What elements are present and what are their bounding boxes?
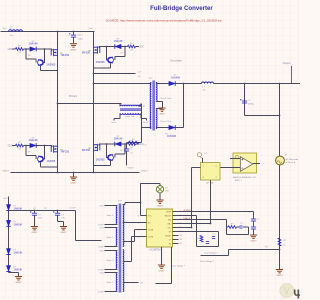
svg-text:COM?: COM? <box>98 269 103 271</box>
wire <box>12 145 16 147</box>
svg-text:1u: 1u <box>138 76 140 78</box>
svg-text:B?: B? <box>141 283 143 285</box>
svg-text:IRF250: IRF250 <box>82 52 91 55</box>
wire <box>159 193 161 200</box>
transistor 2N2905 <box>38 60 44 66</box>
mosfet IRF250 <box>94 144 100 151</box>
svg-text:Rsec1: 10m: Rsec1: 10m <box>161 98 172 100</box>
svg-text:GD2: GD2 <box>100 250 104 252</box>
wire <box>115 56 125 58</box>
wire <box>63 222 65 227</box>
wire <box>156 283 172 285</box>
wire down to bus <box>191 168 193 228</box>
wire <box>114 154 116 158</box>
wire <box>136 143 140 145</box>
svg-text:GND?: GND? <box>157 206 164 208</box>
svg-text:2N2905: 2N2905 <box>47 160 56 163</box>
resistor R gate <box>16 48 24 51</box>
wire <box>105 272 118 274</box>
svg-text:GND?: GND? <box>2 171 9 173</box>
resistor R gate <box>16 144 24 147</box>
wire <box>226 227 228 235</box>
pin OUTB <box>141 236 147 238</box>
wire <box>227 234 249 236</box>
pin EA- <box>173 219 179 221</box>
diode 1N4148 (gate) <box>30 143 36 148</box>
svg-text:GND?: GND? <box>141 171 148 173</box>
wire CS+ <box>179 227 192 229</box>
wire: opamp in+ <box>230 158 240 160</box>
wire <box>36 48 44 50</box>
svg-text:GND?: GND? <box>32 232 39 234</box>
svg-text:TEST: 1: TEST: 1 <box>234 180 242 182</box>
wire <box>123 261 132 263</box>
diode D6 1N4148 <box>6 205 10 211</box>
ground (aux cap1) <box>31 227 38 230</box>
wire <box>159 184 161 186</box>
svg-text:1N4148: 1N4148 <box>14 269 23 272</box>
wire <box>107 46 115 48</box>
wire <box>24 48 30 50</box>
svg-text:1: 1 <box>138 215 139 217</box>
wire <box>105 250 118 252</box>
core line <box>152 81 154 131</box>
secondary winding top <box>156 83 157 102</box>
svg-text:Primary: Primary <box>69 95 78 98</box>
ground (aux) <box>15 277 22 280</box>
svg-text:1m: 1m <box>203 90 206 92</box>
pin RT <box>173 243 179 245</box>
wire <box>161 247 163 265</box>
pin CT <box>173 239 179 241</box>
ground (bridge return) <box>70 177 77 180</box>
wire: output port stub <box>291 66 293 84</box>
capacitor Cdiv <box>212 237 215 239</box>
wire: bridge return rail <box>11 172 140 174</box>
capacitor Cdiv2 <box>206 242 209 244</box>
svg-text:GND?: GND? <box>16 282 23 284</box>
svg-text:1N4148: 1N4148 <box>14 252 23 255</box>
watermark logo <box>280 284 294 298</box>
wire <box>201 255 229 257</box>
svg-text:Ratio: 1: Ratio: 1 <box>107 236 114 239</box>
svg-text:FBACK?: FBACK? <box>184 217 193 220</box>
svg-text:Ψ: Ψ <box>293 288 300 300</box>
wire CS lead left <box>119 113 121 118</box>
wire SS <box>179 231 197 233</box>
wire <box>26 155 36 157</box>
winding GD2 <box>116 251 117 270</box>
wire <box>58 221 64 223</box>
wire <box>35 59 37 63</box>
svg-text:OUTA: OUTA <box>148 228 154 231</box>
wire <box>119 104 121 107</box>
wire <box>105 269 118 271</box>
wire: to pin VCC <box>140 184 142 216</box>
wire <box>162 102 164 109</box>
wire <box>140 104 142 107</box>
wire <box>124 47 126 57</box>
wire <box>34 211 36 213</box>
svg-text:1N4148: 1N4148 <box>114 40 123 43</box>
pin EA+ <box>173 223 179 225</box>
mosfet IRF250 <box>94 46 100 53</box>
svg-text:EA-: EA- <box>168 218 172 221</box>
wire <box>248 227 250 235</box>
wire to gate <box>45 48 53 50</box>
svg-text:GND?: GND? <box>159 271 166 273</box>
inductor Lin <box>9 30 23 32</box>
wire: output rail <box>214 83 301 85</box>
wire <box>121 46 127 48</box>
svg-text:COM?: COM? <box>98 291 103 293</box>
wire EA- <box>179 219 227 221</box>
svg-text:ISen1: ISen1 <box>112 122 117 124</box>
wire <box>228 250 230 256</box>
svg-text:SOURCE; http;//www.heavner.umk: SOURCE; http;//www.heavner.umkc.edu/reso… <box>105 19 221 23</box>
svg-text:VREF: VREF <box>166 211 172 213</box>
wire to primary bottom <box>142 127 152 129</box>
mosfet IRF250 <box>51 49 57 56</box>
wire <box>226 220 228 228</box>
wire <box>123 282 139 284</box>
wire EA+ <box>179 223 211 225</box>
wire: sensor in <box>192 167 201 169</box>
wire <box>124 203 126 205</box>
wire: sensor out down <box>210 180 212 224</box>
svg-text:GND?: GND? <box>159 114 166 116</box>
wire <box>110 161 112 166</box>
ground (center tap) <box>158 108 165 111</box>
wire <box>76 240 102 242</box>
wire <box>132 236 141 238</box>
capacitor Cdc <box>71 35 76 37</box>
wire: +DC rail <box>1 31 95 33</box>
svg-text:GD3: GD3 <box>139 47 144 49</box>
wire <box>196 216 198 232</box>
pin EAOUT <box>173 215 179 217</box>
ground (dc bus) <box>70 44 77 47</box>
diode 1N4148 (gate) <box>30 47 36 52</box>
capacitor Cout <box>242 101 247 103</box>
wire: opamp in- <box>220 167 241 169</box>
wire <box>141 118 147 120</box>
transistor 2N2905 <box>108 155 114 161</box>
wire <box>123 222 141 224</box>
svg-text:Rsec2: 10m: Rsec2: 10m <box>161 121 172 123</box>
svg-text:Vout Voltage ?: Vout Voltage ? <box>205 251 219 254</box>
svg-text:13: 13 <box>180 239 182 241</box>
wire <box>156 83 169 85</box>
svg-text:VCC: VCC <box>148 215 153 217</box>
wire <box>44 146 46 160</box>
wire <box>156 108 163 110</box>
core line <box>120 204 122 293</box>
wire to gate <box>99 46 107 48</box>
svg-text:GND?: GND? <box>251 241 258 243</box>
capacitor Cr <box>124 149 129 151</box>
mosfet IRF250 <box>51 145 57 152</box>
wire <box>73 37 75 43</box>
wire <box>9 272 19 274</box>
svg-text:GD4: GD4 <box>100 272 104 274</box>
svg-text:GND?: GND? <box>61 232 68 234</box>
ground (IC) <box>158 265 165 268</box>
wire gate stub <box>98 144 100 146</box>
diode D2 <box>169 125 175 130</box>
wire <box>253 221 255 227</box>
wire <box>114 118 120 120</box>
diode 1N4148 (gate) <box>115 142 121 147</box>
wire <box>105 205 118 207</box>
wire <box>57 211 59 213</box>
svg-text:GD1: GD1 <box>100 205 104 207</box>
wire <box>146 119 148 121</box>
svg-text:A-TRIG?: A-TRIG? <box>184 209 193 212</box>
svg-text:COM?: COM? <box>98 224 103 226</box>
wire <box>156 101 163 103</box>
wire <box>141 183 161 185</box>
wire <box>26 58 36 60</box>
wire <box>131 237 133 262</box>
wire <box>197 231 219 233</box>
svg-text:Ratio: 10k: Ratio: 10k <box>125 115 134 118</box>
wire: left leg to CS transformer <box>58 103 122 105</box>
wire <box>279 165 281 250</box>
svg-text:Cdc?: Cdc? <box>77 35 83 37</box>
wire <box>110 63 112 68</box>
wire: left leg rail x57 <box>57 32 59 173</box>
wire <box>40 66 42 71</box>
svg-text:IRF250: IRF250 <box>61 151 70 154</box>
resistor Rcomp <box>228 226 237 229</box>
wire <box>113 119 115 121</box>
wire <box>123 204 125 206</box>
current probe I1 <box>276 156 285 165</box>
wire <box>41 166 58 168</box>
op-amp U3 (yellow box) <box>233 153 257 173</box>
PWM controller U1 UC3875 (yellow box) <box>147 209 173 247</box>
svg-text:1N4148: 1N4148 <box>114 138 123 141</box>
CS secondary winding <box>120 113 141 114</box>
wire <box>94 67 111 69</box>
wire <box>105 224 118 226</box>
wire <box>25 49 27 59</box>
wire <box>12 48 16 50</box>
ground (aux cap2) <box>60 227 67 230</box>
diode D1 <box>169 81 175 86</box>
svg-text:DELAY: DELAY <box>165 234 172 237</box>
svg-text:1N5408: 1N5408 <box>167 135 176 138</box>
wire <box>245 115 280 117</box>
wire to gate <box>99 143 107 145</box>
wire <box>24 145 30 147</box>
svg-text:IRF250: IRF250 <box>82 149 91 152</box>
wire <box>94 165 111 167</box>
wire <box>175 127 183 129</box>
winding GD4 <box>116 273 117 292</box>
svg-text:GD3: GD3 <box>100 227 104 229</box>
wire <box>34 215 36 226</box>
wire <box>105 227 118 229</box>
svg-text:OUTB: OUTB <box>148 236 154 238</box>
wire <box>75 211 77 241</box>
resistor R gate <box>128 143 136 146</box>
winding drive B <box>123 250 124 292</box>
wire <box>175 83 201 85</box>
pin NC <box>141 222 147 224</box>
resistor Rr <box>129 141 139 144</box>
wire <box>105 246 118 248</box>
wire <box>123 241 135 243</box>
svg-text:GND?: GND? <box>277 275 284 277</box>
svg-text:LED: LED <box>165 191 169 193</box>
svg-text:Secondary: Secondary <box>170 59 182 62</box>
wire <box>18 273 20 277</box>
capacitor Cvref2 <box>251 227 256 229</box>
wire <box>106 47 108 61</box>
svg-text:2N2905: 2N2905 <box>96 159 105 162</box>
svg-text:ISen2: ISen2 <box>143 122 148 124</box>
svg-text:Vout Voltage ?: Vout Voltage ? <box>172 265 186 268</box>
svg-text:Ratio: 1: Ratio: 1 <box>107 214 114 217</box>
wire: right leg rail x93 <box>93 32 95 173</box>
svg-text:IRF250: IRF250 <box>61 54 70 57</box>
svg-text:4700u: 4700u <box>248 104 255 106</box>
capacitor Cvref <box>251 219 256 221</box>
svg-text:1N5408: 1N5408 <box>171 76 180 79</box>
wire: IC pin down <box>171 247 173 284</box>
wire <box>136 46 140 48</box>
svg-text:100u: 100u <box>78 39 84 41</box>
svg-text:14: 14 <box>180 235 182 237</box>
svg-text:1n: 1n <box>130 152 132 154</box>
transistor 2N2905 <box>38 156 44 162</box>
CS primary winding <box>120 105 141 106</box>
wire <box>218 232 220 247</box>
svg-text:of Phase A: of Phase A <box>286 161 296 164</box>
wire: Vout sense <box>229 249 280 251</box>
wire CS lead right <box>140 113 142 118</box>
wire <box>106 144 108 158</box>
wire <box>41 70 58 72</box>
diode D8 1N4148 <box>6 249 10 255</box>
wire <box>197 246 219 248</box>
wire <box>124 144 126 154</box>
svg-text:EAOUT: EAOUT <box>165 214 172 217</box>
ground (vref) <box>250 235 257 238</box>
wire: primary bottom drop <box>141 104 143 143</box>
resistor R gate <box>128 45 136 48</box>
secondary winding bottom <box>156 109 157 129</box>
core line <box>153 81 155 131</box>
pin SS <box>173 231 179 233</box>
diode 1N4148 (gate) <box>115 44 121 49</box>
wire <box>202 158 204 163</box>
wire <box>44 49 46 63</box>
wire gate stub <box>51 146 53 148</box>
svg-text:2N2905: 2N2905 <box>47 64 56 67</box>
pin DELAY <box>173 235 179 237</box>
wire VREF <box>179 211 254 213</box>
wire <box>35 156 37 160</box>
wire <box>107 143 115 145</box>
svg-text:2N2905: 2N2905 <box>96 61 105 64</box>
wire <box>57 215 59 221</box>
wire <box>134 230 136 242</box>
winding drive A <box>123 205 124 247</box>
wire <box>36 145 44 147</box>
capacitor Ccomp <box>239 226 242 228</box>
wire <box>156 127 169 129</box>
svg-text:COM?: COM? <box>98 246 103 248</box>
ground (load) <box>276 270 283 273</box>
wire <box>253 212 255 219</box>
svg-text:UC3875N: UC3875N <box>150 249 161 252</box>
diode D7 1N4148 <box>6 220 10 226</box>
pin VREF <box>173 211 179 213</box>
svg-text:Full-Bridge Converter: Full-Bridge Converter <box>150 5 213 12</box>
svg-text:Output: Output <box>283 61 291 65</box>
resistor Rload sense <box>278 238 281 246</box>
wire <box>196 232 198 247</box>
svg-text:Ratio: 1: Ratio: 1 <box>107 281 114 284</box>
ground (LED) <box>156 200 163 203</box>
wire <box>114 57 116 61</box>
svg-text:C?: C? <box>212 234 214 236</box>
wire <box>253 229 255 235</box>
svg-text:1N4148: 1N4148 <box>29 139 38 142</box>
pin CS+ <box>173 227 179 229</box>
LED D5 <box>156 186 163 193</box>
svg-text:D.OUT: D.OUT <box>69 208 76 210</box>
svg-text:1N4148: 1N4148 <box>14 223 23 226</box>
svg-text:Vout Voltage ?: Vout Voltage ? <box>200 260 215 263</box>
wire: right leg to primary top <box>94 83 152 85</box>
wire: resonant tap y73.5 <box>94 73 136 75</box>
svg-text:1N4148: 1N4148 <box>29 43 38 46</box>
pin OUTA <box>141 229 147 231</box>
wire <box>125 202 141 204</box>
wire EAOUT <box>179 215 197 217</box>
wire: aux vcc rail <box>9 210 76 212</box>
wire <box>40 162 42 167</box>
wire <box>126 151 128 166</box>
svg-text:R?: R? <box>196 238 198 240</box>
capacitor aux <box>32 213 37 215</box>
wire to gate <box>45 145 53 147</box>
wire <box>244 84 246 116</box>
inductor Lout <box>202 82 214 84</box>
diode D9 1N4148 <box>6 266 10 272</box>
pin VCC <box>141 215 147 217</box>
wire: aux chain <box>8 197 10 273</box>
wire: opamp out <box>253 163 260 165</box>
winding GD3 <box>116 228 117 247</box>
wire: rectifier join <box>183 84 185 128</box>
source V? above sensor <box>198 153 202 157</box>
wire <box>135 229 141 231</box>
svg-text:GND?: GND? <box>71 183 78 185</box>
wire <box>279 246 281 269</box>
capacitor aux <box>55 213 60 215</box>
svg-text:12: 12 <box>180 243 182 245</box>
wire gate stub <box>51 49 53 51</box>
core line <box>118 204 120 293</box>
wire <box>115 153 125 155</box>
wire <box>25 146 27 156</box>
svg-text:AC Magnitude: AC Magnitude <box>286 158 300 161</box>
